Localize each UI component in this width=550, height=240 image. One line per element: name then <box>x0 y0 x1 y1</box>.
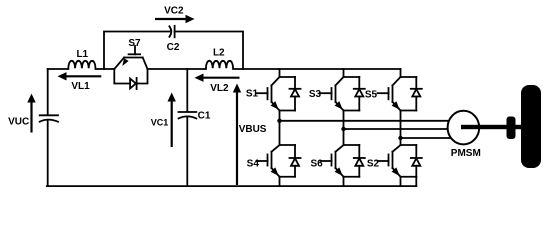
svg-text:L2: L2 <box>213 48 225 59</box>
svg-text:VL2: VL2 <box>210 83 229 94</box>
svg-text:L1: L1 <box>76 49 88 60</box>
svg-text:PMSM: PMSM <box>451 148 481 159</box>
svg-text:VUC: VUC <box>8 117 29 128</box>
svg-text:S6: S6 <box>310 159 323 170</box>
svg-text:S5: S5 <box>365 89 378 100</box>
svg-text:S3: S3 <box>309 89 322 100</box>
svg-text:VBUS: VBUS <box>239 124 267 135</box>
svg-text:C2: C2 <box>167 42 180 53</box>
svg-text:S1: S1 <box>246 89 259 100</box>
svg-text:VC2: VC2 <box>164 6 184 17</box>
svg-text:VC1: VC1 <box>151 118 169 128</box>
svg-text:S7: S7 <box>128 38 141 49</box>
svg-text:C1: C1 <box>198 111 211 122</box>
svg-text:VL1: VL1 <box>71 81 90 92</box>
svg-text:S4: S4 <box>247 159 260 170</box>
svg-text:S2: S2 <box>367 159 380 170</box>
